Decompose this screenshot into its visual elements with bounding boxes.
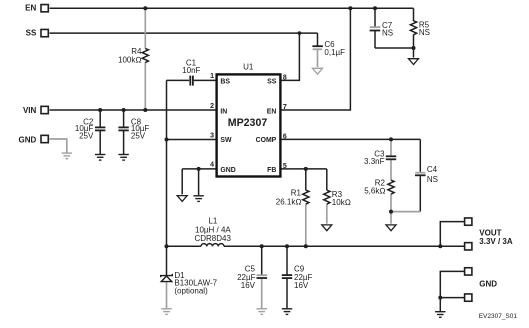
svg-text:VIN: VIN <box>23 106 37 115</box>
svg-text:L1: L1 <box>208 217 217 226</box>
svg-text:1: 1 <box>210 73 214 80</box>
svg-text:3.3nF: 3.3nF <box>364 157 385 166</box>
svg-text:U1: U1 <box>243 62 254 71</box>
svg-text:GND: GND <box>479 280 497 289</box>
svg-text:SS: SS <box>267 79 277 86</box>
svg-text:R1: R1 <box>291 189 302 198</box>
svg-text:4: 4 <box>210 162 214 169</box>
svg-text:GND: GND <box>19 135 37 144</box>
svg-text:5: 5 <box>283 163 287 170</box>
svg-text:EN: EN <box>267 109 277 116</box>
svg-text:GND: GND <box>220 167 235 174</box>
svg-text:COMP: COMP <box>256 137 277 144</box>
svg-text:FB: FB <box>267 167 276 174</box>
svg-text:SW: SW <box>220 137 232 144</box>
svg-text:CDR8D43: CDR8D43 <box>194 234 231 243</box>
svg-text:(optional): (optional) <box>174 287 208 296</box>
svg-text:25V: 25V <box>131 131 146 140</box>
svg-text:16V: 16V <box>241 281 256 290</box>
svg-text:3: 3 <box>210 132 214 139</box>
svg-text:0,1µF: 0,1µF <box>324 48 345 57</box>
svg-text:VOUT: VOUT <box>479 228 501 237</box>
svg-text:IN: IN <box>220 109 227 116</box>
svg-text:EV2307_S01: EV2307_S01 <box>479 313 518 320</box>
svg-text:25V: 25V <box>79 131 94 140</box>
svg-text:16V: 16V <box>294 281 309 290</box>
svg-text:MP2307: MP2307 <box>228 117 268 129</box>
svg-text:3.3V / 3A: 3.3V / 3A <box>479 237 513 246</box>
svg-text:5,6kΩ: 5,6kΩ <box>364 186 385 195</box>
svg-text:7: 7 <box>283 104 287 111</box>
svg-text:BS: BS <box>220 79 230 86</box>
svg-text:NS: NS <box>382 28 393 37</box>
svg-text:8: 8 <box>283 74 287 81</box>
svg-text:10nF: 10nF <box>182 66 200 75</box>
svg-text:C4: C4 <box>427 165 438 174</box>
svg-text:SS: SS <box>26 29 37 38</box>
svg-text:2: 2 <box>210 103 214 110</box>
svg-text:NS: NS <box>427 175 438 184</box>
svg-text:26.1kΩ: 26.1kΩ <box>276 197 302 206</box>
svg-text:NS: NS <box>419 28 430 37</box>
svg-text:100kΩ: 100kΩ <box>118 55 142 64</box>
svg-text:EN: EN <box>25 4 36 13</box>
svg-text:10kΩ: 10kΩ <box>332 198 351 207</box>
svg-text:6: 6 <box>283 133 287 140</box>
